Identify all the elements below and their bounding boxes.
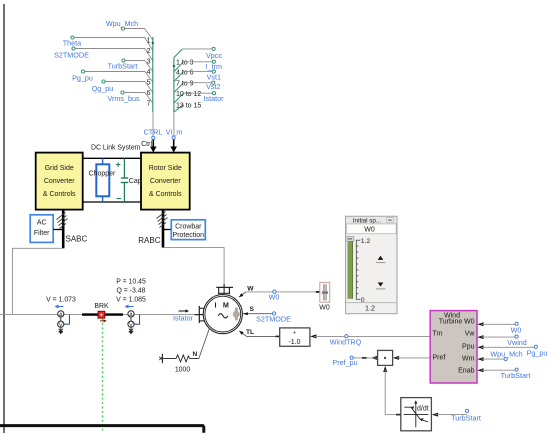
- panel slider bar W0: [346, 237, 354, 299]
- wire turbine W0 input: [477, 322, 516, 326]
- node Wpu_Mch right: [490, 350, 522, 361]
- meter arrow left 2: [125, 305, 134, 309]
- svg-text:Converter: Converter: [150, 178, 181, 185]
- svg-text:SABC: SABC: [66, 235, 88, 244]
- signal label Theta: [63, 36, 81, 48]
- wire CTRL arrow into rotor block: [150, 140, 157, 153]
- svg-text:13 to 15: 13 to 15: [176, 103, 201, 110]
- panel spin buttons: [376, 256, 386, 289]
- multimeter 2: [128, 311, 140, 329]
- svg-text:1.2: 1.2: [361, 238, 371, 245]
- svg-text:Crowbar: Crowbar: [175, 224, 202, 231]
- block Grid Side Converter & Controls: [36, 153, 83, 210]
- wire multiplier bottom input: [383, 366, 387, 415]
- hatch marks RABC: [157, 212, 168, 228]
- node Vst1: [207, 70, 221, 82]
- svg-text:1000: 1000: [175, 366, 190, 373]
- svg-text:Vst1: Vst1: [207, 73, 221, 82]
- slider component W0: [316, 282, 330, 311]
- machine pin TL: [239, 329, 254, 336]
- meter arrow left 1: [55, 305, 64, 309]
- wire Theta to mux pin 2: [74, 38, 153, 51]
- node Vwind: [507, 335, 527, 347]
- wire DC link bottom rail: [83, 201, 141, 203]
- wire Vrms_bus to mux pin 7: [124, 93, 153, 104]
- stub RABC breaker bar: [162, 210, 165, 248]
- svg-text:Pg_pu: Pg_pu: [527, 349, 548, 358]
- wire multiplier output to Pref_pu: [354, 356, 378, 360]
- block d/dt ramp limiter: [401, 398, 432, 431]
- svg-text:Tm: Tm: [433, 331, 443, 338]
- svg-text:3: 3: [147, 59, 151, 66]
- wire mux output to CTRL node: [152, 112, 154, 137]
- svg-text:TL: TL: [246, 329, 254, 336]
- wire TL to gain block: [247, 335, 280, 337]
- wire demux tap to Istator: [184, 92, 213, 94]
- control panel Initial speed: [346, 216, 397, 313]
- resistor Chopper: [89, 158, 117, 202]
- data demux breakout bus: [173, 49, 202, 112]
- node Pg_pu right: [527, 345, 548, 357]
- svg-text:4: 4: [147, 69, 151, 76]
- wire turbine Pref to multiplier: [393, 356, 430, 360]
- induction machine I M: [203, 295, 242, 334]
- svg-text:Vst2: Vst2: [206, 82, 220, 91]
- block Wind Turbine: [430, 311, 477, 383]
- node S2TMODE at machine: [256, 312, 291, 324]
- multiplier block: [378, 350, 393, 365]
- signal label Vrms_bus: [107, 91, 139, 103]
- svg-text:Istator: Istator: [173, 313, 194, 322]
- wire RABC to machine stator: [163, 248, 224, 286]
- signal label Pg_pu: [72, 70, 93, 83]
- svg-text:V = 1.085: V = 1.085: [116, 297, 146, 304]
- wire WindTRQ into gain: [310, 334, 430, 338]
- ground multimeter 1: [58, 328, 63, 335]
- wire breaker thick segment: [82, 313, 123, 315]
- wire demux tap to Vst1: [184, 71, 213, 73]
- machine stator terminal comb: [216, 284, 233, 294]
- svg-text:Ppu: Ppu: [462, 344, 475, 351]
- hatch marks SABC: [57, 213, 68, 229]
- svg-text:V = 1.073: V = 1.073: [46, 296, 76, 303]
- svg-text:Converter: Converter: [44, 178, 75, 185]
- breaker BRK: [98, 311, 105, 318]
- svg-text:*: *: [293, 331, 296, 338]
- node Vst2: [206, 81, 220, 91]
- svg-text:Protection: Protection: [173, 232, 205, 239]
- svg-text:Istator: Istator: [204, 94, 225, 103]
- node TurbStart right: [501, 368, 531, 380]
- svg-text:7: 7: [147, 101, 151, 108]
- node W0 right: [511, 322, 522, 334]
- wire turbine Wm input: [477, 357, 506, 361]
- svg-text:Enab: Enab: [458, 367, 474, 374]
- svg-text:W0: W0: [319, 305, 330, 312]
- wire AC Filter to SABC: [53, 229, 63, 231]
- ground multimeter 2: [129, 328, 134, 335]
- svg-text:S2TMODE: S2TMODE: [54, 51, 89, 60]
- svg-text:Turbine: Turbine: [439, 319, 463, 326]
- svg-text:BRK: BRK: [94, 303, 109, 310]
- svg-text:Wm: Wm: [462, 356, 475, 363]
- block Rotor Side Converter & Controls: [141, 153, 190, 210]
- wire SABC down to grid bus: [12, 248, 63, 314]
- data merge mux pins 1-7: [147, 37, 154, 112]
- wire RABC to crowbar: [163, 229, 171, 231]
- svg-text:W0: W0: [269, 292, 280, 301]
- svg-text:W0: W0: [464, 319, 475, 326]
- machine pin S: [243, 306, 275, 315]
- signal label S2TMODE: [54, 47, 89, 60]
- svg-text:2: 2: [147, 48, 151, 55]
- panel value strip: [346, 303, 397, 313]
- wire Wpu_Mch to mux pin 1: [125, 29, 153, 41]
- wire demux tap to Vst2: [184, 82, 213, 84]
- node VI_m: [166, 128, 183, 140]
- svg-text:DC Link System: DC Link System: [91, 145, 141, 152]
- svg-text:P = 10.45: P = 10.45: [116, 279, 146, 286]
- wire W to slider W0: [246, 291, 316, 293]
- wire turbine Enab input: [477, 368, 516, 372]
- svg-text:7 to 9: 7 to 9: [176, 81, 194, 88]
- panel scale labels: [361, 238, 371, 304]
- svg-text:d/dt: d/dt: [417, 405, 429, 412]
- svg-text:1: 1: [147, 38, 151, 45]
- node TurbStart bottom: [451, 409, 481, 422]
- svg-text:RABC: RABC: [138, 236, 160, 245]
- svg-text:Vrms_bus: Vrms_bus: [107, 94, 139, 103]
- wire N to machine: [199, 329, 210, 359]
- gain block -1.0: [280, 328, 310, 346]
- wire turbine Ppu input: [477, 345, 536, 349]
- node I_trm: [206, 60, 222, 71]
- svg-text:Theta: Theta: [63, 39, 81, 48]
- svg-text:Qg_pu: Qg_pu: [92, 84, 114, 93]
- busbar bottom thick: [0, 426, 204, 433]
- svg-text:AC: AC: [37, 220, 47, 227]
- svg-text:Wpu_Mch: Wpu_Mch: [490, 350, 522, 359]
- svg-text:WindTRQ: WindTRQ: [330, 337, 362, 346]
- svg-text:CTRL: CTRL: [144, 128, 163, 137]
- svg-text:Pg_pu: Pg_pu: [72, 74, 93, 83]
- wire main ac bus: [0, 314, 200, 316]
- svg-text:Cap: Cap: [129, 178, 142, 185]
- svg-text:Vpcc: Vpcc: [206, 51, 222, 60]
- svg-text:-1.0: -1.0: [288, 339, 300, 346]
- node W0 at machine: [269, 290, 280, 301]
- node Istator: [204, 92, 225, 103]
- label Istator arrow: [179, 309, 190, 312]
- svg-text:1 to 3: 1 to 3: [176, 60, 194, 67]
- wire demux bus to VI_m node: [173, 112, 175, 137]
- svg-text:6: 6: [147, 90, 151, 97]
- svg-text:TurbStart: TurbStart: [108, 62, 138, 71]
- block AC Filter: [30, 215, 53, 243]
- svg-text:& Controls: & Controls: [149, 191, 182, 198]
- multimeter 1: [58, 311, 70, 329]
- svg-text:N: N: [193, 351, 198, 358]
- wire TurbStart to mux pin 4: [125, 61, 153, 72]
- wire S2TMODE to mux pin 3: [75, 49, 153, 62]
- stub SABC breaker bar: [62, 210, 65, 248]
- ground resistor terminal: [159, 354, 162, 364]
- sheet edge line: [3, 4, 5, 433]
- svg-text:S2TMODE: S2TMODE: [256, 314, 291, 323]
- signal label TurbStart: [108, 59, 138, 71]
- wire DC link top rail: [83, 157, 141, 159]
- signal label Wpu_Mch: [106, 19, 138, 30]
- svg-text:Filter: Filter: [34, 230, 50, 237]
- svg-text:I M: I M: [215, 300, 232, 309]
- svg-text:Rotor Side: Rotor Side: [149, 165, 182, 172]
- signal label Qg_pu: [92, 80, 114, 93]
- node Pref_pu: [332, 356, 357, 367]
- svg-text:Grid Side: Grid Side: [45, 165, 74, 172]
- wire ramp output to multiplier: [385, 414, 401, 416]
- svg-text:S: S: [250, 306, 255, 313]
- svg-text:Wpu_Mch: Wpu_Mch: [106, 19, 138, 28]
- wire Qg_pu to mux pin 6: [105, 82, 153, 93]
- svg-text:Q = -3.48: Q = -3.48: [117, 288, 146, 295]
- svg-text:Vwind: Vwind: [507, 338, 527, 347]
- svg-text:Chopper: Chopper: [89, 170, 117, 177]
- svg-text:10 to 12: 10 to 12: [176, 91, 201, 98]
- svg-text:TurbStart: TurbStart: [451, 414, 481, 423]
- svg-text:W0: W0: [511, 325, 522, 334]
- svg-text:Initial sp...: Initial sp...: [353, 217, 382, 224]
- svg-text:4 to 6: 4 to 6: [176, 69, 194, 76]
- machine left terminal comb: [195, 306, 205, 323]
- wire turbine Vw input: [477, 335, 516, 339]
- svg-text:−: −: [116, 194, 121, 204]
- machine rotor icon: [233, 307, 240, 320]
- capacitor Cap: [116, 158, 142, 203]
- node WindTRQ: [330, 335, 362, 347]
- breaker state arrow: [100, 319, 107, 322]
- wire demux tap to Vpcc: [183, 48, 213, 50]
- green dashed measurement line: [102, 319, 104, 433]
- machine pin W: [239, 286, 254, 298]
- svg-text:Vw: Vw: [465, 331, 476, 338]
- svg-text:TurbStart: TurbStart: [501, 371, 531, 380]
- label P Q V measurements: [116, 279, 146, 304]
- svg-text:5: 5: [147, 80, 151, 87]
- wire VI_m arrow into rotor block: [170, 140, 177, 153]
- panel scale axis: [356, 240, 360, 300]
- wire TurbStart into ramp: [432, 413, 467, 417]
- svg-text:Pref_pu: Pref_pu: [332, 358, 357, 367]
- svg-text:+: +: [116, 160, 121, 170]
- svg-text:& Controls: & Controls: [43, 191, 76, 198]
- wire Pg_pu to mux pin 5: [85, 72, 153, 83]
- node CTRL: [144, 128, 163, 140]
- node Vpcc: [206, 47, 222, 60]
- resistor 1000: [163, 355, 199, 373]
- block Crowbar Protection: [171, 220, 205, 240]
- svg-text:Pref: Pref: [433, 354, 446, 361]
- svg-text:W0: W0: [364, 226, 375, 233]
- svg-text:1.2: 1.2: [365, 304, 375, 313]
- wire demux tap to I_trm: [184, 61, 213, 63]
